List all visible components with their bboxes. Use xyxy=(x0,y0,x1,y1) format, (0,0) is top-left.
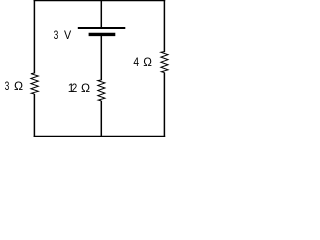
svg-text:Ω: Ω xyxy=(143,55,152,69)
svg-text:2: 2 xyxy=(72,81,78,95)
svg-text:Ω: Ω xyxy=(14,79,23,93)
svg-text:3: 3 xyxy=(54,28,59,42)
svg-text:3: 3 xyxy=(5,79,10,93)
svg-text:V: V xyxy=(64,28,71,42)
svg-text:4: 4 xyxy=(133,55,139,69)
svg-text:Ω: Ω xyxy=(81,81,90,95)
